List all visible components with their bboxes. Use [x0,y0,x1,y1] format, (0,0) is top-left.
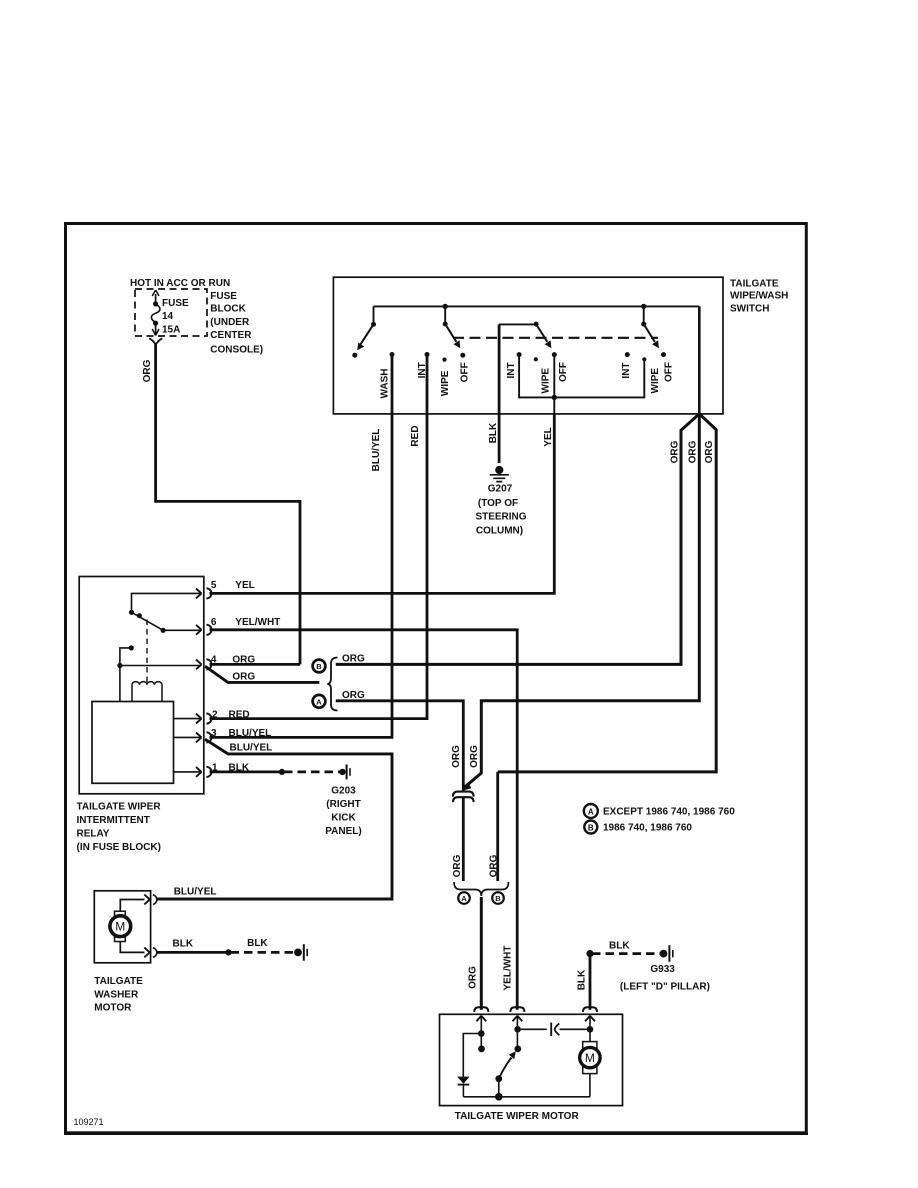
svg-text:ORG: ORG [469,745,480,768]
svg-text:BLOCK: BLOCK [210,304,246,315]
svg-text:G203: G203 [331,786,356,797]
svg-text:WIPE: WIPE [650,368,661,394]
svg-text:WIPE: WIPE [540,368,551,394]
svg-text:ORG: ORG [704,440,715,463]
svg-text:ORG: ORG [670,440,681,463]
svg-text:YEL: YEL [543,427,554,446]
svg-text:BLU/YEL: BLU/YEL [230,743,273,754]
svg-text:ORG: ORG [467,966,478,989]
svg-text:OFF: OFF [663,362,674,382]
svg-text:RED: RED [229,709,250,720]
svg-text:YEL/WHT: YEL/WHT [503,946,514,991]
svg-text:ORG: ORG [142,359,153,382]
svg-text:SWITCH: SWITCH [730,304,769,315]
svg-text:(IN FUSE BLOCK): (IN FUSE BLOCK) [77,842,161,853]
svg-text:RELAY: RELAY [77,829,110,840]
svg-text:INT: INT [621,362,632,378]
svg-text:WIPE: WIPE [440,370,451,396]
svg-text:BLK: BLK [488,422,499,443]
svg-text:OFF: OFF [459,362,470,382]
svg-text:B: B [495,894,501,903]
svg-text:EXCEPT 1986 740, 1986 760: EXCEPT 1986 740, 1986 760 [603,807,735,818]
svg-text:FUSE: FUSE [162,298,189,309]
svg-text:ORG: ORG [687,440,698,463]
svg-text:ORG: ORG [489,854,500,877]
svg-text:INT: INT [506,362,517,378]
svg-text:5: 5 [211,580,217,591]
svg-text:YEL: YEL [235,580,254,591]
svg-text:2: 2 [212,709,218,720]
svg-text:INTERMITTENT: INTERMITTENT [77,815,150,826]
svg-text:M: M [115,920,125,934]
svg-text:3: 3 [211,728,217,739]
svg-text:BLK: BLK [609,941,630,952]
svg-text:BLU/YEL: BLU/YEL [371,429,382,472]
svg-text:A: A [588,807,594,816]
svg-text:BLK: BLK [173,938,194,949]
svg-text:TAILGATE WIPER MOTOR: TAILGATE WIPER MOTOR [455,1111,580,1122]
svg-text:TAILGATE: TAILGATE [94,976,143,987]
svg-text:YEL/WHT: YEL/WHT [235,617,280,628]
svg-text:A: A [316,697,322,706]
svg-text:TAILGATE WIPER: TAILGATE WIPER [77,802,162,813]
svg-text:ORG: ORG [451,745,462,768]
svg-text:6: 6 [211,617,217,628]
svg-text:STEERING: STEERING [475,512,526,523]
svg-text:G933: G933 [650,964,675,975]
svg-text:(RIGHT: (RIGHT [326,799,360,810]
svg-text:BLU/YEL: BLU/YEL [229,728,272,739]
svg-text:B: B [588,823,594,832]
svg-text:OFF: OFF [558,362,569,382]
svg-text:109271: 109271 [74,1117,104,1127]
svg-text:COLUMN): COLUMN) [476,526,523,537]
svg-text:WIPE/WASH: WIPE/WASH [730,291,788,302]
svg-text:(TOP OF: (TOP OF [478,498,518,509]
svg-text:FUSE: FUSE [210,291,237,302]
svg-text:WASH: WASH [379,369,390,399]
svg-text:ORG: ORG [452,854,463,877]
svg-text:14: 14 [162,311,174,322]
svg-text:CONSOLE): CONSOLE) [210,345,263,356]
svg-text:A: A [461,894,467,903]
svg-text:ORG: ORG [342,690,365,701]
svg-text:CENTER: CENTER [210,330,252,341]
svg-text:(UNDER: (UNDER [210,317,250,328]
svg-text:WASHER: WASHER [94,989,139,1000]
svg-text:ORG: ORG [342,654,365,665]
svg-text:15A: 15A [162,325,180,336]
svg-text:B: B [316,662,322,671]
svg-text:BLK: BLK [576,969,587,990]
svg-text:BLU/YEL: BLU/YEL [174,887,217,898]
svg-text:M: M [585,1051,595,1065]
svg-text:PANEL): PANEL) [325,826,361,837]
svg-text:ORG: ORG [232,672,255,683]
svg-text:KICK: KICK [331,813,356,824]
svg-text:RED: RED [410,425,421,446]
svg-text:HOT IN ACC OR RUN: HOT IN ACC OR RUN [130,278,230,289]
svg-text:MOTOR: MOTOR [94,1003,132,1014]
svg-text:BLK: BLK [247,938,268,949]
svg-text:(LEFT "D" PILLAR): (LEFT "D" PILLAR) [620,982,710,993]
svg-text:G207: G207 [488,484,513,495]
svg-text:TAILGATE: TAILGATE [730,279,779,290]
svg-text:1986 740, 1986 760: 1986 740, 1986 760 [603,823,692,834]
